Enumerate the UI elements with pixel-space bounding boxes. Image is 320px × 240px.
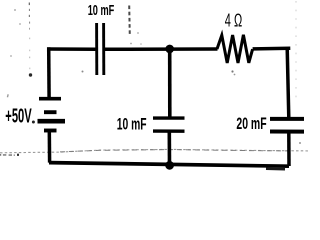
capacitor C2 10 mF (middle branch): [153, 118, 185, 131]
capacitor C3 20 mF (right branch): [270, 119, 304, 132]
svg-text:4 Ω: 4 Ω: [225, 10, 242, 31]
wire top middle segment: [105, 47, 218, 51]
svg-text:10 mF: 10 mF: [117, 116, 147, 134]
node junction dot (top): [165, 45, 174, 54]
svg-text:20 mF: 20 mF: [236, 115, 266, 133]
wire middle vertical upper segment: [168, 49, 172, 118]
wire right vertical upper segment: [287, 48, 289, 118]
wire top-left horizontal segment: [47, 47, 96, 51]
svg-text:10 mF: 10 mF: [88, 3, 115, 19]
wire top-right horizontal segment: [253, 47, 291, 51]
wire left vertical lower segment: [48, 131, 52, 163]
wire bottom horizontal segment: [49, 163, 289, 170]
wire right vertical lower segment: [287, 132, 291, 166]
battery V1 +50V: [38, 99, 66, 131]
resistor R1 zigzag: [217, 35, 253, 63]
wire left vertical upper segment: [47, 47, 51, 98]
node junction dot (bottom): [165, 161, 174, 170]
svg-text:+50V: +50V: [5, 105, 32, 128]
capacitor C1 10 mF (top, series): [97, 23, 104, 75]
wire middle vertical lower segment: [168, 131, 172, 165]
